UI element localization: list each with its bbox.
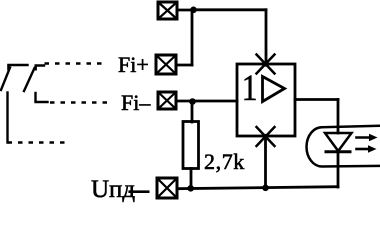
- switch contact S2: [24, 66, 44, 92]
- dashed wire bottom-left: [8, 141, 68, 144]
- LED D1 triangle: [325, 133, 352, 151]
- X isolation mark top: [257, 55, 275, 74]
- wire node A to top-right corner: [194, 8, 267, 11]
- wire bottom X down to bottom rail: [264, 137, 267, 189]
- emission arrow 1: [357, 134, 378, 142]
- X isolation mark bottom: [257, 127, 275, 146]
- wire buffer output to LED: [295, 98, 338, 101]
- resistor R1 body: [183, 122, 199, 169]
- terminal X1 (top input terminal crossed box): [158, 2, 177, 19]
- wire lead of S2 down to Fi- line: [36, 93, 48, 102]
- node A (junction dot top): [190, 7, 197, 14]
- wire resistor to bottom rail: [190, 169, 193, 189]
- node B (junction dot on Fi- wire): [189, 98, 196, 105]
- node D (junction dot bottom middle): [262, 185, 269, 192]
- dashed wire to Fi-: [50, 101, 112, 104]
- terminal Fi- (crossed box): [158, 92, 176, 109]
- LED capsule (photodiode envelope, clipped at right edge): [307, 126, 380, 167]
- wire node B down to resistor: [191, 102, 194, 123]
- dashed wire to Fi+: [45, 62, 105, 65]
- wire node A down to Fi+ corner: [191, 10, 194, 65]
- bottom rail wire: [177, 187, 338, 189]
- wire Fi- to buffer input: [176, 100, 237, 103]
- wire lead of S1 down: [6, 93, 8, 143]
- wire top terminal to node A: [177, 9, 193, 12]
- svg-text:Fi–: Fi–: [121, 90, 151, 115]
- node C (junction dot bottom left): [187, 185, 194, 192]
- wire Fi+ box to vertical riser: [176, 64, 192, 67]
- switch contact S1 (left): [1, 65, 28, 90]
- emission arrow 2: [357, 145, 377, 153]
- svg-text:Fi+: Fi+: [118, 52, 149, 77]
- terminal Fi+ (crossed box): [156, 55, 176, 74]
- optocoupler buffer box U1: [237, 64, 295, 136]
- terminal Upd- (crossed box): [157, 178, 177, 198]
- buffer triangle: [263, 77, 285, 102]
- wire down into LED anode: [337, 100, 340, 134]
- LED cathode bar: [326, 150, 350, 153]
- wire down to top X of buffer: [265, 10, 268, 62]
- wire LED cathode to bottom rail: [337, 152, 340, 187]
- svg-text:Uпд: Uпд: [91, 176, 135, 203]
- svg-text:2,7k: 2,7k: [204, 149, 245, 174]
